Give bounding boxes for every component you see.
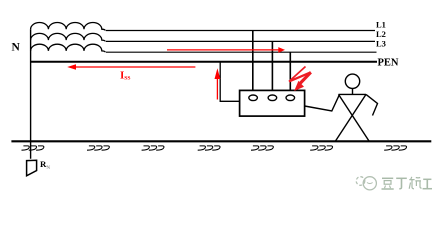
earth ground line	[11, 140, 431, 142]
PEN tap wire to equipment case	[220, 62, 239, 102]
watermark docin logo circles	[356, 177, 376, 190]
wire L3	[106, 51, 377, 53]
person left arm touching equipment	[305, 94, 340, 111]
person head	[345, 74, 359, 88]
svg-text:L3: L3	[376, 39, 386, 49]
red fault current arrow on L3 (pointing right)	[167, 47, 285, 53]
transformer neutral bus vertical wire	[30, 29, 32, 159]
watermark text 豆丁施工 (vector strokes)	[382, 177, 433, 189]
transformer winding W1	[31, 23, 106, 31]
red up arrow in PEN tap	[215, 68, 221, 99]
person neck	[352, 89, 354, 95]
svg-text:N: N	[12, 42, 21, 54]
person right arm	[366, 94, 378, 115]
earth hatch group 4	[198, 146, 220, 150]
transformer winding W2	[31, 33, 106, 41]
terminal 2	[268, 95, 277, 101]
person left leg (crossed)	[339, 94, 370, 141]
drop wire from L2 to terminal 2	[271, 41, 273, 95]
earth hatch group 5	[251, 146, 273, 150]
wire L2	[106, 40, 375, 42]
transformer winding W3	[31, 44, 106, 52]
drop wire from L1 to terminal 1	[252, 31, 254, 96]
earth hatch group 1	[22, 146, 44, 150]
person right leg (crossed)	[336, 94, 367, 141]
terminal 1	[249, 95, 258, 101]
equipment box	[240, 90, 305, 116]
wire PEN	[31, 61, 377, 63]
earthing electrode RN symbol	[27, 160, 37, 176]
red lightning fault symbol	[289, 67, 311, 92]
earth hatch group 3	[142, 146, 164, 150]
earth hatch group 7	[384, 146, 406, 150]
drop wire from L3 to terminal 3	[289, 52, 291, 95]
terminal 3	[286, 95, 295, 101]
svg-text:L2: L2	[376, 29, 386, 39]
earth hatch group 6	[310, 146, 332, 150]
wire L1	[106, 30, 375, 32]
earth hatch group 2	[87, 146, 109, 150]
red return current arrow Iss on PEN (pointing left)	[67, 64, 195, 69]
svg-text:PEN: PEN	[378, 57, 399, 68]
person shoulders	[339, 93, 367, 95]
